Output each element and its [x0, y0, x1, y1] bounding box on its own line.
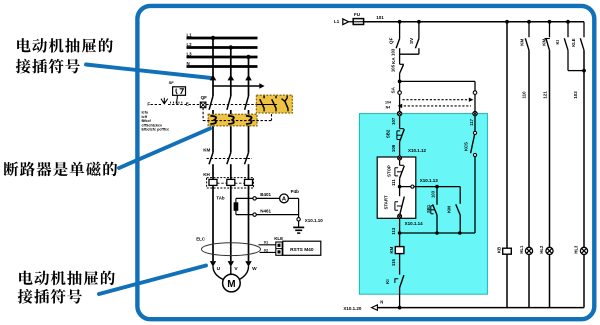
svg-text:QF: QF	[389, 37, 394, 44]
svg-text:P4b: P4b	[291, 189, 300, 194]
svg-text:HL3: HL3	[574, 245, 579, 254]
svg-text:L1: L1	[334, 19, 340, 24]
svg-text:01: 01	[264, 239, 269, 244]
svg-text:SF: SF	[169, 80, 175, 85]
svg-text:Efbctcfc pcfffcc: Efbctcfc pcfffcc	[142, 128, 170, 132]
svg-text:103: 103	[573, 91, 578, 99]
svg-text:109: 109	[391, 144, 396, 152]
svg-text:N4: N4	[386, 105, 391, 109]
svg-text:SB2: SB2	[386, 129, 391, 138]
svg-text:L3: L3	[187, 51, 193, 56]
svg-text:X10.1.20: X10.1.20	[343, 306, 362, 311]
svg-text:F: F	[147, 101, 150, 106]
svg-text:M: M	[227, 279, 235, 290]
svg-text:107: 107	[391, 117, 396, 125]
svg-text:103: 103	[431, 190, 436, 198]
svg-text:104: 104	[385, 100, 391, 104]
svg-text:N461: N461	[260, 208, 271, 213]
svg-text:N: N	[187, 61, 190, 66]
svg-text:X10.1.14: X10.1.14	[405, 221, 424, 226]
svg-text:W: W	[252, 266, 257, 272]
svg-text:X10.1.13: X10.1.13	[420, 178, 439, 183]
svg-text:START: START	[383, 195, 388, 209]
svg-text:RSTS M40: RSTS M40	[290, 247, 314, 253]
svg-text:KI: KI	[555, 40, 560, 44]
svg-text:X10.1.12: X10.1.12	[408, 148, 427, 153]
svg-text:QF: QF	[201, 95, 208, 100]
svg-text:FU: FU	[354, 12, 360, 17]
svg-text:115: 115	[391, 259, 396, 267]
svg-text:KB: KB	[496, 247, 501, 253]
svg-text:121: 121	[542, 91, 547, 99]
svg-text:cffSchtzkcv: cffSchtzkcv	[142, 123, 163, 127]
svg-text:SA: SA	[390, 86, 395, 93]
svg-text:KA: KA	[391, 57, 396, 64]
svg-text:SV: SV	[409, 38, 414, 44]
svg-text:L2: L2	[187, 42, 193, 47]
svg-text:U: U	[217, 266, 221, 272]
svg-text:KLE: KLE	[274, 236, 283, 241]
svg-text:KCS: KCS	[464, 142, 469, 151]
svg-text:KH: KH	[203, 172, 210, 177]
svg-text:105: 105	[391, 64, 396, 72]
svg-text:HL2: HL2	[539, 245, 544, 254]
svg-text:KI: KI	[385, 279, 390, 283]
svg-text:KM: KM	[203, 147, 210, 152]
svg-text:SB1: SB1	[426, 204, 431, 213]
svg-text:101: 101	[376, 15, 384, 20]
svg-text:KM: KM	[446, 206, 451, 213]
svg-text:N: N	[380, 300, 383, 305]
svg-text:KLE: KLE	[571, 38, 576, 47]
svg-text:X10.1.10: X10.1.10	[305, 218, 324, 223]
svg-text:103: 103	[391, 48, 396, 56]
svg-text:KM: KM	[541, 39, 546, 46]
svg-text:110: 110	[522, 91, 527, 99]
svg-text:113: 113	[391, 227, 396, 235]
svg-text:KM: KM	[389, 246, 394, 253]
svg-text:ELC: ELC	[196, 236, 206, 241]
svg-text:TAb: TAb	[216, 195, 225, 200]
svg-text:B401: B401	[260, 192, 271, 197]
svg-text:STOP: STOP	[387, 165, 392, 177]
svg-text:111: 111	[391, 179, 396, 186]
svg-text:117: 117	[469, 118, 474, 125]
svg-text:KM: KM	[519, 39, 524, 46]
svg-text:L1: L1	[187, 32, 193, 37]
svg-text:HL1: HL1	[519, 245, 524, 254]
